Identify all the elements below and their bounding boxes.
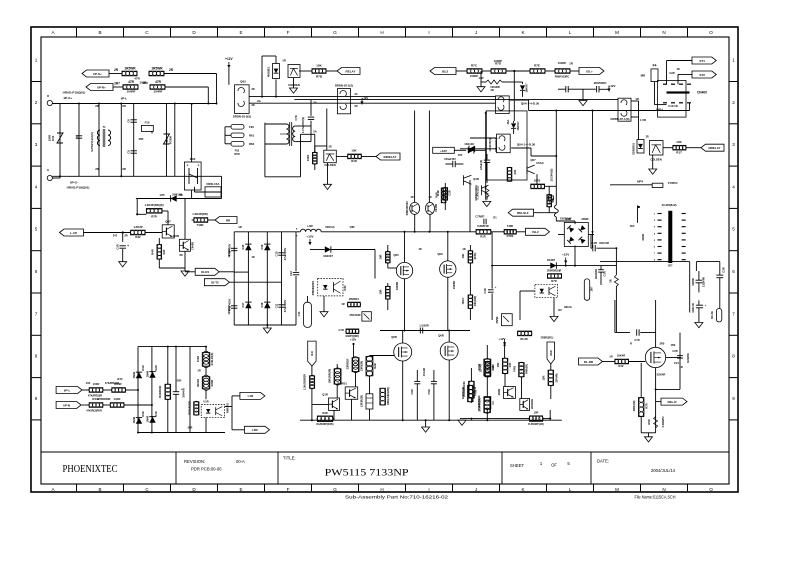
svg-text:23P: 23P <box>508 362 512 367</box>
svg-text:6: 6 <box>732 269 735 274</box>
svg-text:D3R: D3R <box>141 411 145 416</box>
svg-text:I/P-G+: I/P-G+ <box>64 96 73 100</box>
svg-text:11R: 11R <box>630 224 635 228</box>
svg-text:1R: 1R <box>462 247 465 251</box>
svg-text:10R5D: 10R5D <box>452 281 456 289</box>
svg-text:F60: F60 <box>249 125 254 129</box>
svg-text:1R: 1R <box>197 369 200 373</box>
svg-text:2N7343R: 2N7343R <box>350 313 361 317</box>
svg-text:O: O <box>709 487 713 492</box>
svg-text:1R: 1R <box>341 302 344 306</box>
svg-text:1R: 1R <box>328 145 331 149</box>
svg-text:Q06: Q06 <box>437 252 443 256</box>
svg-text:PDR PCB:00-00: PDR PCB:00-00 <box>191 467 222 472</box>
svg-text:47R: 47R <box>155 80 162 84</box>
svg-text:1R?: 1R? <box>668 264 673 268</box>
svg-text:C10: C10 <box>275 251 279 256</box>
svg-text:103RF: 103RF <box>494 59 503 63</box>
svg-text:5: 5 <box>35 227 38 232</box>
svg-text:1R: 1R <box>635 97 639 101</box>
svg-text:I: I <box>428 30 429 35</box>
svg-text:R63R01: R63R01 <box>349 297 359 301</box>
svg-text:1N4007: 1N4007 <box>525 83 529 93</box>
svg-text:1N4R: 1N4R <box>146 416 150 423</box>
svg-text:R5.3R: R5.3R <box>520 337 527 341</box>
svg-text:8: 8 <box>732 354 735 359</box>
svg-text:1R0R3R(S)R: 1R0R3R(S)R <box>547 269 562 272</box>
svg-text:PC806: PC806 <box>169 135 173 143</box>
svg-text:1N4007: 1N4007 <box>323 254 333 258</box>
svg-text:R0W/103RC: R0W/103RC <box>555 75 570 79</box>
svg-text:H: H <box>380 30 383 35</box>
svg-text:1R0: 1R0 <box>142 81 148 85</box>
svg-text:2.5RWP2: 2.5RWP2 <box>661 416 665 428</box>
svg-text:132K4R: 132K4R <box>702 277 706 287</box>
svg-text:1R44R: 1R44R <box>479 364 483 372</box>
svg-text:+12V: +12V <box>440 149 447 153</box>
svg-text:C945R: C945R <box>434 204 438 212</box>
svg-text:Q07: Q07 <box>165 220 171 224</box>
svg-text:1R: 1R <box>676 67 679 71</box>
svg-text:R5R/R22R1: R5R/R22R1 <box>311 280 315 295</box>
svg-text:2: 2 <box>732 100 735 105</box>
svg-text:R4R5R(3)R: R4R5R(3)R <box>462 387 465 399</box>
svg-text:C2R/R1R: C2R/R1R <box>477 224 489 228</box>
svg-text:4: 4 <box>35 184 38 189</box>
svg-text:17R: 17R <box>159 193 164 197</box>
svg-text:R7B: R7B <box>316 75 323 79</box>
svg-text:10K4R: 10K4R <box>617 354 625 358</box>
svg-text:13R0(2R): 13R0(2R) <box>361 361 364 372</box>
svg-text:10R: 10R <box>379 289 383 294</box>
svg-text:15R: 15R <box>534 411 539 415</box>
svg-text:DL.RR: DL.RR <box>584 360 594 364</box>
svg-text:10K: 10K <box>676 140 682 144</box>
svg-text:1R: 1R <box>418 247 421 251</box>
svg-text:R61: R61 <box>249 134 255 138</box>
svg-text:3RC: 3RC <box>549 349 553 356</box>
svg-text:I/P-L: I/P-L <box>64 388 71 392</box>
svg-text:PW5115 7133NP: PW5115 7133NP <box>325 469 409 479</box>
svg-text:3: 3 <box>35 142 38 147</box>
svg-text:M: M <box>615 487 619 492</box>
svg-text:23R/R1R: 23R/R1R <box>346 359 350 370</box>
svg-text:6: 6 <box>35 269 38 274</box>
svg-text:1R: 1R <box>609 279 613 282</box>
svg-text:1R0: 1R0 <box>671 343 676 347</box>
svg-text:2R8R(3R1): 2R8R(3R1) <box>541 337 554 340</box>
svg-text:104: 104 <box>86 381 91 385</box>
svg-text:10R5D: 10R5D <box>395 282 399 290</box>
svg-text:2SK4R: 2SK4R <box>657 373 666 377</box>
svg-text:4R2R2: 4R2R2 <box>196 378 200 387</box>
svg-text:2R: 2R <box>251 103 254 107</box>
svg-text:R1: R1 <box>493 216 497 220</box>
svg-text:C1R: C1R <box>448 190 452 195</box>
svg-text:R6R7R1: R6R7R1 <box>226 402 230 413</box>
svg-text:INRELAY: INRELAY <box>384 155 397 159</box>
svg-text:D17: D17 <box>241 302 245 307</box>
svg-text:R7E: R7E <box>534 64 540 68</box>
svg-text:0/P4: 0/P4 <box>637 180 644 184</box>
svg-text:103RF: 103RF <box>558 61 567 65</box>
svg-text:G: G <box>47 168 49 172</box>
svg-text:10K: 10K <box>351 149 356 153</box>
svg-text:2R: 2R <box>179 193 182 197</box>
svg-text:C1R: C1R <box>722 267 726 272</box>
svg-text:1R5WR: 1R5WR <box>124 67 136 71</box>
svg-text:7R2C: 7R2C <box>461 298 465 305</box>
svg-text:25R: 25R <box>177 379 182 383</box>
svg-text:23P(4R): 23P(4R) <box>556 373 559 382</box>
svg-text:K01: K01 <box>51 135 55 141</box>
svg-text:Q04-1-4-D.30: Q04-1-4-D.30 <box>521 102 540 106</box>
svg-text:R33: R33 <box>162 249 166 254</box>
svg-text:REVISION:: REVISION: <box>184 459 205 464</box>
svg-text:R07: R07 <box>165 137 169 142</box>
svg-text:R5R: R5R <box>647 419 651 424</box>
svg-text:1.2K3P(3W)(S): 1.2K3P(3W)(S) <box>144 203 163 207</box>
svg-text:1.47uF35V(S): 1.47uF35V(S) <box>301 117 305 133</box>
svg-text:5: 5 <box>732 227 735 232</box>
svg-text:1R: 1R <box>410 195 413 199</box>
svg-text:74R3: 74R3 <box>474 389 478 396</box>
svg-text:R7R3: R7R3 <box>507 234 514 238</box>
svg-text:1N4R: 1N4R <box>146 371 150 378</box>
svg-text:Q05: Q05 <box>393 253 399 257</box>
svg-text:11R: 11R <box>479 76 484 80</box>
svg-text:10.2R(8x2): 10.2R(8x2) <box>661 203 676 207</box>
svg-text:R31: R31 <box>513 169 517 174</box>
svg-text:S.PW2TA10A(S): S.PW2TA10A(S) <box>90 132 94 152</box>
svg-text:C1R: C1R <box>116 244 120 249</box>
svg-text:+12V: +12V <box>608 84 615 88</box>
svg-text:R17: R17 <box>676 151 682 155</box>
svg-text:CN400: CN400 <box>697 91 707 95</box>
svg-text:2SC945(S): 2SC945(S) <box>549 168 553 181</box>
svg-text:+12V: +12V <box>225 57 233 61</box>
svg-text:R3R: R3R <box>322 411 327 415</box>
svg-text:1R: 1R <box>251 255 254 259</box>
svg-text:C5: C5 <box>75 135 79 139</box>
svg-text:F: F <box>287 30 290 35</box>
svg-text:B: B <box>98 487 101 492</box>
svg-text:+12V: +12V <box>306 235 313 239</box>
svg-text:R5R: R5R <box>234 152 239 156</box>
svg-text:J: J <box>475 487 477 492</box>
svg-text:+: + <box>495 285 497 289</box>
svg-text:M: M <box>615 30 619 35</box>
svg-text:2A: 2A <box>313 130 317 134</box>
svg-text:1.5/50R: 1.5/50R <box>419 324 428 328</box>
svg-text:247: 247 <box>113 234 118 238</box>
svg-text:MR: MR <box>641 74 646 78</box>
svg-text:1N4R: 1N4R <box>132 417 136 424</box>
svg-text:104R: 104R <box>114 397 121 401</box>
svg-text:U5AC: U5AC <box>536 161 544 165</box>
svg-text:74R3: 74R3 <box>513 365 517 372</box>
svg-text:R44R: R44R <box>92 397 99 401</box>
svg-text:45R: 45R <box>551 197 555 202</box>
svg-text:10K(R32): 10K(R32) <box>474 296 477 307</box>
svg-text:2R2R3R: 2R2R3R <box>530 399 534 409</box>
svg-text:DRDN-03-2(S): DRDN-03-2(S) <box>233 115 251 119</box>
svg-text:600V/A: 600V/A <box>325 225 334 229</box>
svg-text:C1R: C1R <box>603 271 607 276</box>
svg-text:2R2R3R: 2R2R3R <box>594 269 598 279</box>
svg-text:00-A: 00-A <box>236 459 245 464</box>
svg-text:1: 1 <box>732 58 735 63</box>
svg-text:R12: R12 <box>619 364 624 368</box>
svg-text:DRDN-07-1(S): DRDN-07-1(S) <box>611 117 630 121</box>
svg-text:2A: 2A <box>257 99 261 103</box>
svg-text:D4R: D4R <box>154 411 158 416</box>
svg-text:2R5K(3R): 2R5K(3R) <box>633 400 636 411</box>
svg-text:1N4007: 1N4007 <box>516 121 520 131</box>
svg-text:1N4148: 1N4148 <box>464 142 474 146</box>
svg-text:COLDEN: COLDEN <box>324 163 335 167</box>
svg-text:15R: 15R <box>542 375 546 380</box>
svg-text:I-1R: I-1R <box>248 394 255 398</box>
svg-text:DRD-15A: DRD-15A <box>206 182 220 186</box>
svg-text:C2R: C2R <box>669 71 674 75</box>
svg-text:R7R: R7R <box>551 279 556 283</box>
svg-text:2R: 2R <box>169 68 174 72</box>
svg-text:N: N <box>662 30 665 35</box>
svg-text:10R: 10R <box>379 254 383 259</box>
svg-text:D15: D15 <box>241 244 245 249</box>
svg-text:RELAY: RELAY <box>346 69 356 73</box>
svg-text:1R: 1R <box>609 355 612 359</box>
svg-text:2R0: 2R0 <box>660 342 665 346</box>
svg-text:104RF: 104RF <box>126 90 135 94</box>
svg-text:B: B <box>98 30 101 35</box>
svg-text:R64R: R64R <box>114 382 121 386</box>
svg-text:G: G <box>333 487 337 492</box>
svg-text:1N4R7: 1N4R7 <box>547 258 556 262</box>
svg-text:+: + <box>127 244 129 248</box>
svg-text:C12: C12 <box>289 271 293 276</box>
svg-text:INP-L: INP-L <box>656 108 664 112</box>
svg-text:1R3R4R(1R): 1R3R4R(1R) <box>479 398 482 412</box>
svg-text:C6R: C6R <box>410 389 414 394</box>
svg-text:I1R: I1R <box>310 350 314 356</box>
svg-text:I/P-R+: I/P-R+ <box>97 85 106 89</box>
svg-text:J: J <box>475 30 477 35</box>
svg-text:9: 9 <box>35 396 38 401</box>
svg-text:PHOENIXTEC: PHOENIXTEC <box>63 464 118 475</box>
svg-text:4: 4 <box>732 184 735 189</box>
svg-text:E: E <box>239 487 242 492</box>
svg-text:C13: C13 <box>297 311 301 316</box>
svg-text:1N4R: 1N4R <box>132 372 136 379</box>
svg-text:2004/JUL/14: 2004/JUL/14 <box>651 468 676 473</box>
svg-text:ISL2: ISL2 <box>532 230 539 234</box>
svg-text:ISL2: ISL2 <box>442 69 449 73</box>
svg-text:100uF/6V: 100uF/6V <box>444 157 456 161</box>
svg-text:10R: 10R <box>349 225 354 229</box>
svg-text:2R: 2R <box>251 87 254 91</box>
svg-text:R.3R-R4(S): R.3R-R4(S) <box>211 353 214 366</box>
svg-text:C11: C11 <box>275 303 279 308</box>
svg-text:2R: 2R <box>179 253 182 257</box>
svg-text:1R?: 1R? <box>590 286 594 291</box>
svg-text:15R: 15R <box>496 362 500 367</box>
svg-text:2R: 2R <box>354 104 357 108</box>
svg-text:10K: 10K <box>461 253 465 258</box>
svg-text:ISL+: ISL+ <box>586 69 593 73</box>
svg-text:47uF450V: 47uF450V <box>283 300 287 313</box>
svg-text:2R2R: 2R2R <box>497 389 501 396</box>
svg-text:R5R/7R06C: R5R/7R06C <box>405 201 409 216</box>
svg-text:1R5WR: 1R5WR <box>151 67 163 71</box>
svg-text:F: F <box>287 487 290 492</box>
svg-text:2R: 2R <box>124 234 127 238</box>
svg-text:U1R: U1R <box>203 400 208 404</box>
svg-text:47K/R(3)R0R: 47K/R(3)R0R <box>86 409 102 413</box>
svg-text:DATE:: DATE: <box>597 459 609 464</box>
svg-text:R32R: R32R <box>210 380 214 387</box>
svg-text:TITLE:: TITLE: <box>283 456 296 461</box>
svg-text:47uF450V: 47uF450V <box>228 299 232 312</box>
svg-text:R4C: R4C <box>117 377 122 381</box>
svg-text:R9: R9 <box>558 308 562 312</box>
svg-text:47uF450V: 47uF450V <box>283 248 287 261</box>
svg-text:2R: 2R <box>122 167 126 171</box>
svg-text:OF: OF <box>551 463 557 468</box>
svg-text:1R: 1R <box>490 88 494 92</box>
svg-text:IO-R1: IO-R1 <box>201 270 209 274</box>
svg-text:T43R: T43R <box>197 223 204 227</box>
svg-text:9: 9 <box>732 396 735 401</box>
svg-text:15A1R: 15A1R <box>422 368 426 376</box>
svg-text:GR8D: GR8D <box>691 278 695 286</box>
svg-text:13K/R30(S): 13K/R30(S) <box>489 138 492 151</box>
svg-text:Q6R: Q6R <box>438 334 444 338</box>
svg-text:C1R: C1R <box>483 288 487 293</box>
svg-text:R62: R62 <box>249 142 255 146</box>
svg-text:26A: 26A <box>506 119 510 124</box>
svg-text:P2R: P2R <box>343 285 347 290</box>
svg-text:MC2A: MC2A <box>564 305 572 309</box>
svg-text:2R: 2R <box>114 68 119 72</box>
svg-text:C8: C8 <box>127 150 131 154</box>
svg-text:2R: 2R <box>95 167 99 171</box>
svg-text:B1R: B1R <box>565 217 571 221</box>
svg-text:Sub-Assembly Part No:710-16216: Sub-Assembly Part No:710-16216-02 <box>345 495 448 501</box>
svg-text:4.7R: 4.7R <box>338 328 344 332</box>
svg-text:3: 3 <box>732 142 735 147</box>
svg-text:D16: D16 <box>260 244 264 249</box>
svg-text:D2R: D2R <box>154 365 158 370</box>
svg-text:R1P: R1P <box>491 365 495 370</box>
svg-text:25R: 25R <box>188 426 193 430</box>
svg-text:Q04-1-4-D.30: Q04-1-4-D.30 <box>517 142 536 146</box>
svg-text:ST2: ST2 <box>699 73 705 77</box>
svg-text:47R: 47R <box>128 80 135 84</box>
svg-text:1R: 1R <box>282 59 286 63</box>
svg-text:132K4R: 132K4R <box>691 303 695 313</box>
svg-text:10K: 10K <box>316 64 322 68</box>
svg-text:C21: C21 <box>674 361 679 365</box>
svg-text:74RF: 74RF <box>507 224 514 228</box>
svg-text:R1R: R1R <box>480 234 485 238</box>
svg-text:47uF450V: 47uF450V <box>228 244 232 257</box>
svg-text:O: O <box>709 30 713 35</box>
svg-text:C.2R: C.2R <box>591 241 597 245</box>
svg-text:L-1R: L-1R <box>70 231 78 235</box>
svg-text:HRAD:P10(Q01): HRAD:P10(Q01) <box>67 186 90 190</box>
svg-text:I: I <box>428 487 429 492</box>
svg-text:COLDEN: COLDEN <box>288 83 300 87</box>
svg-text:SHEET: SHEET <box>510 463 524 468</box>
svg-text:C7R: C7R <box>634 338 639 342</box>
svg-text:RELSLF: RELSLF <box>517 211 529 215</box>
svg-text:R7R: R7R <box>151 215 157 219</box>
svg-text:25R: 25R <box>139 137 144 141</box>
svg-text:2R: 2R <box>122 104 126 108</box>
svg-text:C6: C6 <box>127 119 131 123</box>
svg-text:1R: 1R <box>238 225 242 229</box>
svg-text:120uF(6): 120uF(6) <box>480 160 483 170</box>
svg-text:I-RC: I-RC <box>252 428 259 432</box>
svg-text:L: L <box>569 30 572 35</box>
svg-text:R62R: R62R <box>641 234 645 241</box>
svg-text:K03: K03 <box>190 157 196 161</box>
svg-text:2A: 2A <box>313 100 317 104</box>
svg-text:I/P-S+: I/P-S+ <box>93 72 102 76</box>
svg-text:R4R: R4R <box>435 192 439 197</box>
svg-text:1: 1 <box>35 58 38 63</box>
svg-text:R7C: R7C <box>471 64 478 68</box>
svg-text:C10.1R: C10.1R <box>668 104 677 108</box>
svg-text:Q1R: Q1R <box>322 393 328 397</box>
svg-text:1.5K(3W)/R2R: 1.5K(3W)/R2R <box>304 374 307 390</box>
svg-text:N: N <box>662 487 665 492</box>
svg-text:(R3R): (R3R) <box>474 253 477 260</box>
svg-text:104R: 104R <box>93 382 100 386</box>
svg-text:13R3R(2R): 13R3R(2R) <box>361 395 364 407</box>
svg-text:R: R <box>630 342 632 346</box>
svg-text:10K41R: 10K41R <box>599 241 609 245</box>
svg-text:7: 7 <box>732 311 735 316</box>
svg-text:Q03: Q03 <box>240 80 246 84</box>
svg-text:+: + <box>705 303 707 307</box>
svg-text:2R2R: 2R2R <box>581 217 588 221</box>
svg-text:2: 2 <box>35 100 38 105</box>
svg-text:File Name:5115CA.SCH: File Name:5115CA.SCH <box>635 495 676 500</box>
svg-text:15R/1RR(3R): 15R/1RR(3R) <box>329 369 332 384</box>
svg-text:R2R/3R: R2R/3R <box>686 353 690 362</box>
svg-text:E: E <box>239 30 242 35</box>
svg-text:G: G <box>333 30 337 35</box>
svg-text:R32: R32 <box>135 235 141 239</box>
svg-text:7: 7 <box>35 311 38 316</box>
svg-text:R4R: R4R <box>151 249 155 254</box>
svg-text:2A: 2A <box>354 92 357 96</box>
svg-text:+12V: +12V <box>350 338 357 342</box>
svg-text:R5R(3R3C): R5R(3R3C) <box>494 138 498 152</box>
svg-text:HRAD:P10(Q01): HRAD:P10(Q01) <box>63 91 86 95</box>
svg-text:NRELAY: NRELAY <box>708 146 720 150</box>
svg-text:1.5R: 1.5R <box>640 118 646 122</box>
svg-text:1.5K3P: 1.5K3P <box>133 225 142 229</box>
svg-text:ST1: ST1 <box>699 59 705 63</box>
svg-text:17R: 17R <box>458 153 463 157</box>
svg-text:R: R <box>151 131 153 135</box>
svg-text:D18: D18 <box>260 302 264 307</box>
svg-text:12R3: 12R3 <box>306 154 310 161</box>
